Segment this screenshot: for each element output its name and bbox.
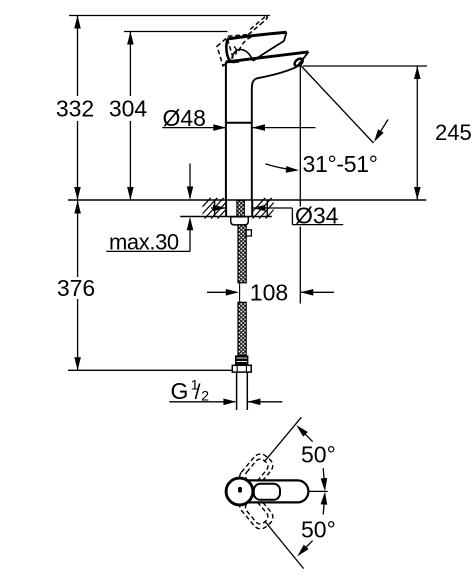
spout tip face <box>297 52 309 67</box>
spout top edge <box>226 52 309 62</box>
hatch zone edge right <box>266 200 268 217</box>
svg-text:31°-51°: 31°-51° <box>303 151 378 177</box>
svg-text:/: / <box>195 381 201 404</box>
svg-text:332: 332 <box>56 96 94 122</box>
knuckle bottom <box>231 60 240 63</box>
angle arrows at horizontal line <box>323 468 325 488</box>
dimension line 376 <box>77 200 79 277</box>
dimension line 245 <box>416 66 418 200</box>
deck hatch left <box>192 198 237 219</box>
rotation line down <box>265 521 304 568</box>
dome detail arc <box>234 47 236 55</box>
arc arrow on spray line <box>377 120 388 138</box>
handle slot <box>238 487 242 493</box>
body seam line <box>226 122 252 124</box>
svg-text:Ø34: Ø34 <box>295 202 339 228</box>
spray angle line 31-51 <box>300 65 374 144</box>
aerator <box>293 57 304 67</box>
top view body circle <box>226 478 253 505</box>
counter top line <box>68 199 426 201</box>
extension line bottom (376 level) <box>68 369 235 371</box>
curved leader to centerline <box>265 164 296 170</box>
shank hole edge left <box>225 200 227 217</box>
lever top edge <box>227 32 286 39</box>
dimension 108 <box>207 291 237 293</box>
extension line top (332 level) <box>69 15 270 17</box>
connector nut <box>232 365 251 372</box>
max.30 leaders <box>189 164 191 199</box>
svg-text:376: 376 <box>57 275 95 301</box>
svg-text:Ø48: Ø48 <box>163 105 206 131</box>
spout underside curve and column right edge <box>252 67 297 200</box>
svg-text:245: 245 <box>435 120 472 145</box>
spout outlet centerline <box>299 66 301 207</box>
extension line (304 level) <box>124 31 228 33</box>
svg-text:304: 304 <box>109 96 148 122</box>
dashed lever ghost up 50 <box>236 451 276 492</box>
lever left face (knuckle) <box>226 39 230 62</box>
mounting nut <box>231 217 249 225</box>
hose centerline in gap <box>239 283 241 303</box>
flexible hose lower segment <box>238 302 246 355</box>
svg-text:108: 108 <box>250 280 288 306</box>
svg-text:50°: 50° <box>301 442 336 468</box>
angle arrow at up line <box>300 428 313 441</box>
lever underside <box>253 41 284 61</box>
deck hatch right <box>246 198 285 219</box>
G1/2 pipe <box>236 372 238 410</box>
label Ø34 with leader <box>211 207 226 209</box>
lever window <box>254 484 280 500</box>
hatch zone edge left <box>214 200 216 217</box>
angle arrow at down line <box>301 541 313 553</box>
lever right end <box>284 32 287 41</box>
hose crimp sleeve <box>235 355 248 365</box>
cartridge dome <box>232 49 253 60</box>
counter bottom line <box>180 216 272 218</box>
threaded shank <box>237 201 244 217</box>
second hose end tab <box>246 230 252 236</box>
svg-text:G: G <box>171 378 189 404</box>
dimension line 304 <box>129 32 131 97</box>
faucet column left edge <box>225 62 227 200</box>
extension line 245 (spout outlet level) <box>303 65 427 67</box>
horizontal reference line <box>308 490 327 492</box>
raised lever ghost (dashed) <box>217 16 267 66</box>
top view lever body <box>240 480 308 502</box>
dimension line 332 <box>77 16 79 97</box>
shank hole edge right <box>251 200 253 217</box>
svg-text:50°: 50° <box>301 516 336 542</box>
flexible hose upper segment <box>238 225 246 283</box>
G1/2 dimension <box>169 401 235 403</box>
svg-text:2: 2 <box>201 388 209 404</box>
dashed lever ghost down 50 <box>236 491 276 532</box>
rotation line up <box>264 417 301 461</box>
